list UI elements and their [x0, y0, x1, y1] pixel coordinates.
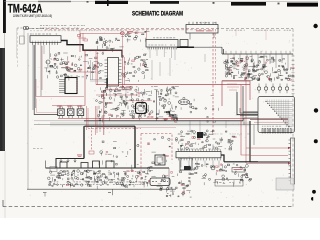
- mic jack rounded ic: [136, 103, 147, 114]
- red trace relay rail: [52, 105, 85, 107]
- cluster bottom dense right of connector: [157, 186, 179, 197]
- red trace x85: [84, 50, 86, 106]
- outline left tick: [45, 161, 47, 169]
- ic C box: [108, 58, 119, 87]
- fan box left wires: [240, 113, 258, 118]
- black L path x237: [237, 92, 258, 115]
- outline bump 4: [106, 161, 114, 168]
- small box below J1: [20, 36, 25, 44]
- block H left rail double: [222, 47, 224, 54]
- small ic in red box: [155, 155, 165, 165]
- pin label row top edge: [226, 29, 228, 32]
- thick line G to right: [224, 161, 258, 163]
- trunk staircase center red: [169, 116, 178, 122]
- pcb outline dashed bottom: [3, 206, 293, 208]
- bus staircase 1: [61, 41, 108, 51]
- red corner left: [36, 79, 84, 97]
- crystal X1 red: [120, 32, 124, 35]
- ic E pin wires down: [149, 49, 151, 58]
- red double vertical x96 upper: [96, 50, 97, 85]
- red vertical x246: [245, 56, 247, 163]
- fan left steps: [240, 108, 244, 125]
- fan box: [258, 97, 295, 133]
- vertical wire x156: [156, 90, 158, 121]
- transformer T1 oval: [179, 99, 190, 104]
- corner box bottom right area: [240, 181, 244, 185]
- red trace y50: [83, 50, 122, 52]
- pcb outline corner left tick: [2, 200, 4, 207]
- red horizontal above mic ic: [126, 100, 152, 102]
- cluster center upper: [122, 54, 149, 82]
- outline bottom line: [46, 167, 170, 169]
- rounded connector bottom: [150, 178, 170, 186]
- red trace top-left: [80, 33, 121, 35]
- ic E box: [146, 40, 178, 48]
- bar G box: [176, 152, 221, 158]
- ic E inner pin numbers: [149, 44, 151, 47]
- top film bar segment 5: [287, 3, 318, 7]
- red vertical x241: [241, 85, 250, 156]
- svg-text:SCHEMATIC DIAGRAM: SCHEMATIC DIAGRAM: [132, 11, 183, 17]
- connector box A: [30, 36, 61, 43]
- bullet hole 1: [313, 24, 317, 28]
- ic label box bottom: [232, 168, 245, 173]
- red wire into ic E: [146, 30, 148, 40]
- black L path x243b: [243, 111, 258, 113]
- top film bar segment 2: [95, 1, 128, 4]
- cluster vertical chain: [181, 183, 191, 197]
- cluster in red dashed box: [144, 137, 174, 188]
- left faint vertical wire: [16, 28, 18, 58]
- trunk red wire: [58, 117, 288, 119]
- red box top-right corner: [236, 29, 266, 40]
- bullet hole 4: [312, 190, 316, 194]
- cluster mid right sparse: [181, 95, 219, 122]
- trunk staircase center: [166, 112, 177, 121]
- bullet hole 2: [314, 108, 318, 112]
- wire E to H: [194, 46, 222, 48]
- connector box A pins: [32, 42, 34, 45]
- trunk staircase center gray: [167, 114, 177, 121]
- gray box bottom right: [276, 178, 294, 190]
- cluster center-bottom sparse: [99, 141, 139, 169]
- wire A pin1 down: [32, 45, 34, 110]
- ic E pins: [147, 47, 149, 49]
- red verticals bottom-left of trunk: [87, 106, 89, 130]
- red trace crystal down: [121, 35, 123, 55]
- label row mid pcb: [178, 133, 180, 136]
- red relay drops: [61, 106, 81, 109]
- right connector pins: [289, 139, 291, 141]
- trunk staircase right: [250, 121, 290, 162]
- red dashed vertical x215: [215, 29, 217, 84]
- red dashes top: [45, 29, 213, 31]
- connector pin row: [262, 126, 292, 133]
- module F box: [186, 25, 218, 34]
- red arrows to connector: [246, 148, 288, 164]
- fan wires: [265, 100, 292, 128]
- connector box A labels: [30, 33, 32, 36]
- module F pins up: [188, 22, 190, 25]
- cluster mid-left parts: [44, 52, 104, 80]
- trunk wash: [50, 122, 250, 126]
- gray verticals x90: [91, 60, 93, 80]
- wire below J1: [23, 30, 25, 44]
- antenna connector J1: [23, 27, 26, 30]
- top film bar segment 1: [38, 1, 71, 2]
- right connector strip: [291, 138, 295, 184]
- scattered vertical wires center: [100, 54, 226, 136]
- bottom horizontal rail: [27, 188, 176, 190]
- red trace long horizontal mid: [96, 84, 250, 86]
- crystal label red: [127, 30, 133, 33]
- text row bottom b: [55, 183, 56, 186]
- box below G: [180, 158, 192, 170]
- pcb dashed left edge: [17, 29, 19, 69]
- red double along ic C: [123, 55, 133, 88]
- ic D pins: [59, 79, 65, 81]
- bar G right step thick: [221, 155, 224, 162]
- transistor Q bottom 1: [187, 166, 191, 170]
- outline thick vertical: [83, 126, 85, 158]
- wire A pin7 down: [48, 45, 50, 58]
- red trace mid-left path: [61, 68, 96, 73]
- trunk thick wire 2: [85, 125, 136, 127]
- wire A pin5 down: [43, 45, 45, 54]
- bullet hole 3: [314, 139, 318, 143]
- bottom tick x112: [112, 189, 114, 195]
- left frame wire: [27, 33, 29, 189]
- svg-text:220M TX-RX UNIT (X57-3610-10): 220M TX-RX UNIT (X57-3610-10): [13, 14, 52, 18]
- red dashed tp drop: [91, 127, 93, 150]
- relay squares K1 K2 K3: [58, 109, 64, 116]
- top film tick d: [278, 3, 280, 5]
- top film tick b: [107, 0, 109, 6]
- cluster bottom-left rows: [48, 170, 105, 190]
- red dashed box center-bottom: [141, 134, 172, 186]
- top film tick c: [213, 2, 215, 4]
- block H vertical wires: [227, 54, 229, 62]
- scan film edge bar top-left: [3, 0, 6, 33]
- red verticals x95-97: [96, 106, 98, 135]
- arrow ticks: [60, 159, 76, 163]
- bottom mark x45: [44, 193, 46, 197]
- red wire crystal to E: [127, 31, 146, 33]
- vertical wire x243: [242, 86, 244, 121]
- connector box A inner ticks: [33, 41, 58, 42]
- top film bar segment 4: [231, 2, 266, 6]
- ic D labels: [64, 75, 66, 78]
- text row bottom a: [50, 181, 52, 184]
- relay labels red: [57, 105, 62, 108]
- red trace vertical x80: [79, 34, 81, 53]
- transistor circle Q left: [46, 60, 50, 64]
- wires into ic C bottom: [90, 80, 107, 82]
- vertical wire x256: [253, 125, 255, 146]
- cluster top-middle b: [125, 31, 150, 42]
- bar G labels top: [177, 148, 179, 151]
- trunk faint red 2: [96, 126, 176, 128]
- block H top rail: [222, 53, 293, 55]
- red corner left lower: [37, 99, 58, 113]
- H bottom rail: [222, 80, 253, 82]
- right edge ticks: [292, 55, 295, 57]
- ic D red pin marks: [76, 80, 78, 92]
- outline bump 2: [81, 163, 88, 169]
- scan speckle noise: [27, 29, 295, 206]
- ic C top wire: [108, 50, 123, 57]
- bar G pins: [178, 149, 180, 160]
- top film tick a: [87, 1, 89, 3]
- red box in H: [222, 81, 250, 106]
- cluster bottom mid: [177, 163, 251, 187]
- ic E thick bottom step: [177, 46, 194, 48]
- bar G down wires: [181, 160, 219, 168]
- trunk gray wire: [34, 124, 288, 126]
- wire frame corner: [34, 45, 58, 115]
- vertical wire x169: [168, 168, 170, 190]
- red trace x42: [41, 46, 43, 90]
- small rect bottom-left: [50, 167, 57, 172]
- tiny mark left: [33, 148, 43, 150]
- outline step left: [56, 159, 84, 169]
- scan film faint left line: [4, 151, 6, 218]
- label row top of pcb: [30, 29, 32, 32]
- ic D box: [65, 78, 77, 94]
- trunk ext dark right: [250, 119, 288, 121]
- trunk dark wire 1: [84, 120, 243, 122]
- cluster bottom rows 2: [104, 170, 155, 188]
- transistor row under H: [257, 84, 288, 94]
- pcb outline dashed right: [292, 29, 294, 207]
- note text line 2: [40, 27, 41, 30]
- scan film edge bar left: [0, 48, 5, 151]
- module F wires down: [190, 33, 214, 40]
- dashed wire from J1: [17, 27, 44, 30]
- red label near outline: [77, 154, 82, 157]
- outline thick vertical 2: [134, 126, 136, 168]
- outline bump 1: [60, 162, 67, 168]
- module F label: [196, 21, 198, 24]
- red box border mid: [88, 127, 141, 129]
- ic C pins: [105, 59, 108, 61]
- ic E label: [153, 36, 155, 39]
- cluster block H components: [224, 56, 294, 82]
- wire A pin2 down: [34, 45, 36, 108]
- red dashed vertical x213: [212, 29, 214, 135]
- ic C left edge dark bottom: [106, 78, 108, 88]
- red trace mid 2: [96, 94, 140, 96]
- ic E2 box: [180, 40, 188, 47]
- dark component box: [197, 132, 203, 138]
- transistor Q bottom 2: [211, 166, 215, 170]
- red component cluster top: [78, 30, 86, 41]
- trunk ext red right 2: [254, 121, 288, 123]
- pcb outline dashed top: [26, 28, 293, 30]
- bullet hole 5 (clipped): [311, 197, 315, 201]
- cluster below trunk right: [175, 130, 236, 151]
- note text line 1: [40, 24, 42, 27]
- cluster top-middle small parts: [96, 36, 124, 52]
- bottom thin box with text: [215, 180, 243, 187]
- cluster center mid dense: [96, 86, 179, 123]
- module F red text: [196, 29, 204, 32]
- wire A pin4 down: [40, 45, 42, 96]
- top film bar segment 3: [150, 1, 179, 4]
- red rounded box center: [104, 90, 132, 135]
- trunk dark wire 1 ext: [34, 120, 84, 122]
- top film edge line: [4, 0, 318, 2]
- H rail ticks up: [226, 51, 290, 54]
- outline bump 3: [93, 161, 100, 168]
